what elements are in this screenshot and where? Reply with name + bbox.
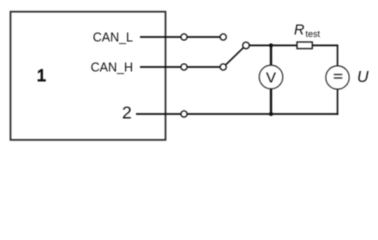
ECU box 1 bbox=[11, 12, 166, 140]
wire pin2 inside-to-contact bbox=[136, 113, 181, 115]
wire right vertical down to source U bbox=[337, 45, 339, 67]
svg-text:CAN_H: CAN_H bbox=[91, 60, 133, 74]
wire CAN_H contact-to-contact bbox=[187, 66, 220, 68]
wire source U down to bottom wire bbox=[337, 89, 339, 115]
wire top: contact to resistor bbox=[250, 44, 298, 46]
resistor R_test body bbox=[297, 42, 312, 49]
source symbol = bbox=[334, 74, 343, 76]
switch blade from CAN_H to test contact bbox=[226, 48, 244, 65]
voltmeter V circle bbox=[259, 65, 283, 89]
contact circle pin2 bbox=[181, 111, 187, 117]
svg-text:CAN_L: CAN_L bbox=[93, 30, 133, 44]
contact circle CAN_L a bbox=[181, 34, 187, 40]
contact circle CAN_L b (open end) bbox=[220, 34, 226, 40]
wire V branch bottom bbox=[270, 89, 272, 114]
wire top: resistor to right corner bbox=[312, 44, 337, 46]
switch top contact circle bbox=[243, 42, 250, 49]
svg-text:test: test bbox=[306, 29, 321, 39]
svg-text:U: U bbox=[357, 69, 369, 86]
wire CAN_H inside-to-contact bbox=[140, 66, 181, 68]
svg-text:R: R bbox=[294, 23, 305, 39]
junction node top (V branch tap) bbox=[269, 43, 273, 47]
bottom wire contact to U corner bbox=[187, 113, 338, 115]
svg-text:1: 1 bbox=[37, 66, 46, 85]
contact circle CAN_H a bbox=[181, 64, 187, 70]
wire V branch top bbox=[270, 45, 272, 65]
source U circle bbox=[326, 66, 349, 89]
svg-text:V: V bbox=[266, 69, 276, 86]
contact circle CAN_H b bbox=[220, 64, 226, 70]
svg-text:2: 2 bbox=[122, 103, 132, 123]
wire CAN_L inside-to-contact bbox=[140, 36, 181, 38]
junction node bottom (V branch) bbox=[269, 112, 273, 116]
wire CAN_L contact-to-contact bbox=[187, 36, 220, 38]
